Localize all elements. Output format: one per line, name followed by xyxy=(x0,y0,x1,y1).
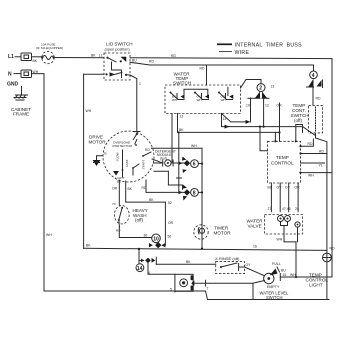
svg-text:10: 10 xyxy=(153,237,159,243)
wire branch to temp control left xyxy=(259,126,268,151)
lid switch S1 xyxy=(104,42,133,81)
svg-text:CONTROL: CONTROL xyxy=(271,161,294,166)
wire lid switch lower feed, WH xyxy=(84,73,104,75)
svg-text:1: 1 xyxy=(139,82,141,86)
svg-text:RD: RD xyxy=(149,60,154,64)
svg-text:G: G xyxy=(104,152,107,156)
wire temp control right WH xyxy=(299,172,332,178)
svg-text:BU: BU xyxy=(132,59,137,63)
water valve V1 xyxy=(247,215,303,235)
svg-text:VALVE: VALVE xyxy=(248,224,262,229)
wire OR riser to temp control xyxy=(263,103,280,141)
svg-text:FRAME: FRAME xyxy=(13,112,29,117)
svg-text:START: START xyxy=(142,160,146,170)
terminal N xyxy=(8,70,32,78)
wire bus BU top xyxy=(130,54,332,62)
wire fuse to lid switch, BK L1 xyxy=(55,54,105,58)
svg-text:(open position): (open position) xyxy=(105,48,131,52)
wire bottom right loop xyxy=(253,262,327,300)
wire motor left to ground xyxy=(97,152,108,161)
timer contact 4 xyxy=(307,71,323,105)
svg-text:SLOW: SLOW xyxy=(116,152,120,161)
svg-text:14: 14 xyxy=(137,266,143,272)
svg-text:WH: WH xyxy=(308,174,314,178)
svg-text:47 45: 47 45 xyxy=(282,207,291,211)
svg-text:FULL: FULL xyxy=(272,262,281,266)
svg-text:BK: BK xyxy=(128,187,133,191)
junction at contact14 riser xyxy=(138,248,140,264)
svg-text:RD: RD xyxy=(145,148,150,152)
svg-text:12: 12 xyxy=(265,104,269,108)
wire right outer vertical xyxy=(331,59,333,277)
svg-text:30: 30 xyxy=(144,234,148,238)
svg-text:14: 14 xyxy=(223,117,227,121)
svg-text:2: 2 xyxy=(259,86,262,92)
svg-text:16: 16 xyxy=(253,244,257,248)
svg-text:5: 5 xyxy=(170,288,172,292)
timer contact 2 xyxy=(246,84,282,127)
svg-text:(off): (off) xyxy=(135,218,144,223)
svg-text:PROTECTOR: PROTECTOR xyxy=(113,144,133,148)
wire x-rinse to water level switch GY xyxy=(245,263,265,276)
wire module row WH xyxy=(154,162,185,164)
heavy wash switch S4 xyxy=(112,202,148,233)
terminal L1 xyxy=(8,53,32,61)
wire motor bottom OR to heavy wash xyxy=(112,180,119,205)
svg-text:15: 15 xyxy=(283,273,287,277)
svg-text:RD: RD xyxy=(142,186,147,190)
svg-text:RD: RD xyxy=(171,54,176,58)
wire WTS bottom-left to BK row xyxy=(178,114,281,134)
svg-text:GY: GY xyxy=(246,263,252,267)
fuse F1 10A xyxy=(36,43,63,64)
svg-text:OR: OR xyxy=(295,186,301,190)
svg-text:GY: GY xyxy=(277,186,283,190)
svg-text:L1: L1 xyxy=(99,54,103,58)
svg-text:N: N xyxy=(8,72,12,78)
wire N down left side, WH xyxy=(32,70,45,291)
svg-text:8: 8 xyxy=(193,190,196,196)
bottom bus wire xyxy=(44,233,329,300)
svg-text:GY: GY xyxy=(285,186,291,190)
svg-text:FAST: FAST xyxy=(125,159,129,167)
svg-text:7: 7 xyxy=(207,287,209,291)
wire water level switch to right WH xyxy=(253,244,332,278)
temp cont switch S3 xyxy=(291,103,323,133)
wire WH riser to lower bus xyxy=(84,74,92,248)
svg-text:(IF SO-EQUIPPED): (IF SO-EQUIPPED) xyxy=(36,46,63,50)
svg-text:GND: GND xyxy=(7,82,19,88)
wire heavy wash to contact 10 xyxy=(119,227,151,238)
wire WTS mid-bottom down to module row xyxy=(171,114,173,163)
svg-text:(off): (off) xyxy=(294,118,303,123)
wire water valve common WH down xyxy=(277,226,298,278)
temp control TC1 xyxy=(268,125,303,184)
drive motor M1 xyxy=(89,131,155,184)
x-rinse switch S5 xyxy=(215,256,245,274)
svg-text:WIRE: WIRE xyxy=(235,50,250,56)
svg-text:WH: WH xyxy=(197,98,202,102)
wire down to lid lock box xyxy=(148,263,175,274)
wire L1 to fuse, BK xyxy=(32,57,42,63)
svg-text:RD: RD xyxy=(200,67,205,71)
ground at motor xyxy=(93,160,101,166)
timer contact 8 xyxy=(179,185,204,201)
svg-text:12: 12 xyxy=(180,115,184,119)
svg-text:BK: BK xyxy=(33,59,38,63)
wire temp cont switch to inner right vertical xyxy=(316,133,327,253)
wire lid lock to water level switch, 7 xyxy=(194,280,253,290)
svg-text:RD: RD xyxy=(316,97,321,101)
svg-text:BK: BK xyxy=(86,244,91,248)
wire bus2 into water temp switch RD xyxy=(206,65,208,85)
wire WTS right-bottom, two branches xyxy=(222,98,316,136)
wire WH top mid row xyxy=(152,144,203,149)
svg-text:RD: RD xyxy=(330,247,335,251)
wire lid switch to motor top xyxy=(130,75,141,131)
svg-text:24: 24 xyxy=(295,207,299,211)
svg-text:BK: BK xyxy=(179,128,184,132)
water temp switch S2 xyxy=(165,72,241,114)
svg-text:LIGHT: LIGHT xyxy=(309,283,323,288)
svg-text:EMPTY: EMPTY xyxy=(267,285,280,289)
svg-text:WH: WH xyxy=(221,98,226,102)
timer motor M3 xyxy=(194,225,231,239)
temp control light L2 xyxy=(306,247,335,288)
timer contact 14 xyxy=(136,257,156,275)
wire temp control right RD to temp cont switch xyxy=(299,139,313,147)
svg-text:YL: YL xyxy=(319,164,323,168)
internal timer buss legend xyxy=(217,43,302,56)
detergent module M2 xyxy=(155,150,176,167)
svg-text:27: 27 xyxy=(268,207,272,211)
wire temp control right RD2 xyxy=(299,150,327,155)
svg-text:70: 70 xyxy=(112,202,116,206)
svg-text:INTERNAL TIMER BUSS: INTERNAL TIMER BUSS xyxy=(235,43,303,49)
svg-text:OR: OR xyxy=(168,221,174,225)
junction dots lower bus xyxy=(166,240,203,250)
svg-text:52: 52 xyxy=(168,201,172,205)
cabinet frame label xyxy=(11,107,31,117)
svg-text:RD: RD xyxy=(308,142,313,146)
svg-text:BU: BU xyxy=(281,269,286,273)
svg-text:BK: BK xyxy=(186,260,191,264)
svg-text:6: 6 xyxy=(193,162,196,168)
svg-text:50: 50 xyxy=(168,235,172,239)
wire motor right to module xyxy=(145,148,163,163)
wire bus 2 RD xyxy=(130,60,314,71)
svg-text:WH: WH xyxy=(191,144,197,148)
svg-text:TEMP: TEMP xyxy=(276,155,289,160)
lower bus wire BK xyxy=(84,244,327,251)
svg-text:WH: WH xyxy=(86,109,92,113)
svg-text:OR: OR xyxy=(112,187,118,191)
svg-text:WH: WH xyxy=(277,238,283,242)
lid lock indicator D1 xyxy=(170,274,194,292)
svg-text:13: 13 xyxy=(271,85,275,89)
svg-text:WH: WH xyxy=(172,98,177,102)
water level switch S6 xyxy=(260,262,290,300)
wire temp control right YL xyxy=(301,163,325,168)
timer contact 10 xyxy=(149,234,171,248)
wires temp control to water valve xyxy=(268,183,301,212)
svg-text:4: 4 xyxy=(312,73,315,79)
svg-text:RD: RD xyxy=(319,150,324,154)
svg-text:MOTOR: MOTOR xyxy=(89,140,107,145)
wire WTS top right to timer contact 2 xyxy=(241,80,275,89)
svg-text:BU: BU xyxy=(268,186,273,190)
svg-text:RD: RD xyxy=(116,229,121,233)
svg-text:WH: WH xyxy=(46,233,52,237)
svg-text:MOTOR: MOTOR xyxy=(214,231,232,236)
wire motor right tap to contact8 wedge xyxy=(154,171,183,189)
wire contact14 to x-rinse BK xyxy=(156,260,215,264)
wire center vertical buss xyxy=(201,148,203,248)
svg-text:10: 10 xyxy=(246,104,250,108)
svg-text:L1: L1 xyxy=(8,54,14,60)
svg-text:BK: BK xyxy=(91,54,96,58)
wire WTS drop to module row xyxy=(177,131,182,192)
timer contact 6 xyxy=(179,157,204,174)
ground GND xyxy=(7,82,28,101)
wire motor bottom BK to contact 10 xyxy=(126,181,174,245)
wire motor to contact8 RD xyxy=(142,180,185,192)
svg-text:LID SWITCH: LID SWITCH xyxy=(106,42,133,47)
svg-text:X-RINSE (off): X-RINSE (off) xyxy=(215,256,240,261)
svg-text:BK: BK xyxy=(149,198,154,202)
